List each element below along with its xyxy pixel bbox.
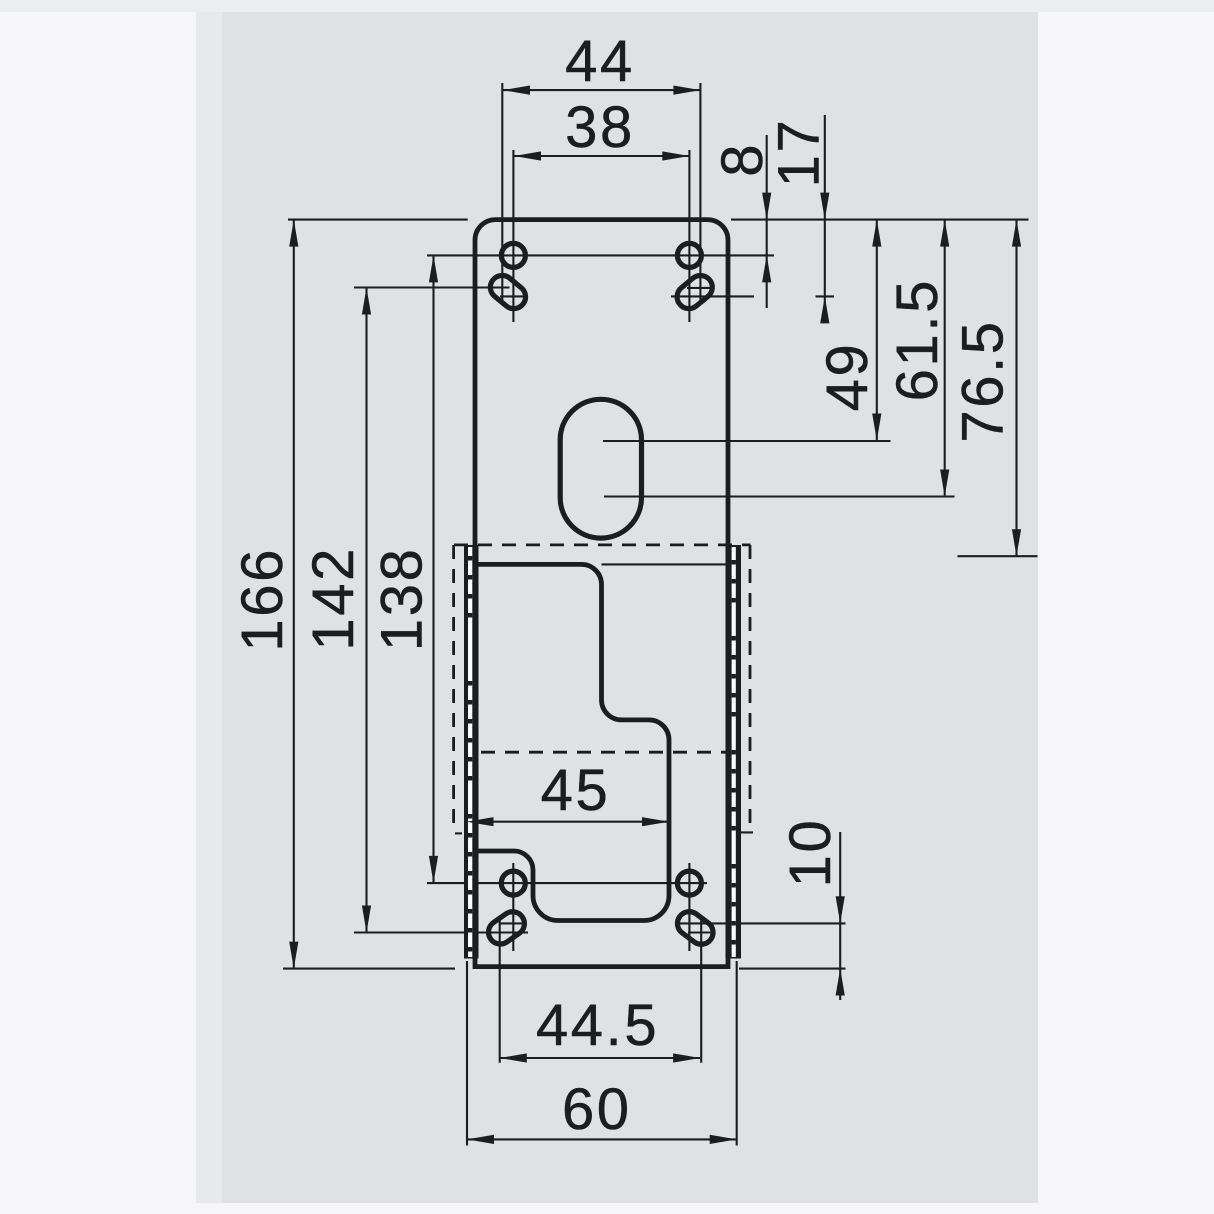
arrow 166 top (289, 220, 298, 247)
extension line 60 left (466, 961, 468, 1146)
tick: right dashed line end (734, 831, 753, 833)
extension line: plate bottom right (10) (739, 968, 846, 970)
svg-text:38: 38 (565, 95, 635, 160)
arrow 17 bottom (outside) (820, 296, 829, 323)
panel left soft highlight (196, 12, 222, 1203)
arrow 45 left (467, 817, 494, 826)
dimension line 166 (293, 220, 295, 969)
dimension line 60 (467, 1138, 737, 1140)
arrow 49 bottom (872, 414, 881, 441)
arrow 142 top (362, 288, 371, 315)
arrow 138 bottom (429, 856, 438, 883)
dimension line 10 (839, 832, 841, 1000)
arrow 166 bottom (289, 942, 298, 969)
arrow 38 right (662, 151, 689, 160)
extension line: top oblong upper crosses (142) (354, 286, 510, 288)
svg-text:142: 142 (301, 546, 366, 651)
extension line: bottom oblong lower crosses (142) (354, 931, 528, 933)
right hatched strip (726, 545, 742, 959)
svg-text:76.5: 76.5 (950, 319, 1015, 442)
arrow 76.5 bottom (1012, 529, 1021, 556)
top-left oblong hole (486, 271, 531, 314)
arrow 76.5 top (1012, 220, 1021, 247)
extension line 44 left (501, 83, 503, 301)
arrow 10 top (outside) (836, 896, 845, 923)
extension line: oval top center (49) (603, 440, 891, 442)
svg-text:61.5: 61.5 (885, 278, 950, 401)
tick: left dashed line end (455, 832, 462, 834)
extension line 44 right (699, 83, 701, 301)
extension line: top-right oblong lower cross (17) (671, 295, 754, 297)
arrow 61.5 bottom (940, 470, 949, 497)
bottom cross line right holes (688, 863, 690, 951)
gray drawing panel (196, 12, 1038, 1203)
arrow 10 bottom (outside) (836, 969, 845, 996)
dimension line 45 (467, 821, 670, 823)
dimension line 49 (876, 220, 878, 441)
extension line 44.5 right (700, 919, 702, 1063)
arrow 8 bottom (outside) (762, 255, 771, 282)
extension line: plate bottom left (166) (283, 968, 455, 970)
arrow 138 top (429, 255, 438, 282)
svg-text:44.5: 44.5 (536, 993, 659, 1058)
arrow 61.5 top (940, 220, 949, 247)
left hatched strip (464, 545, 479, 959)
tick: bottom-left oblong upper cross (500, 922, 527, 924)
tick at 17 dimension line (816, 295, 835, 297)
bottom-left oblong hole (484, 907, 529, 948)
dimension line 17 (824, 115, 826, 320)
arrow 60 left (467, 1135, 494, 1144)
dimension line 61.5 (944, 220, 946, 497)
arrow 44 right (673, 86, 700, 95)
dashed line: case middle (481, 751, 727, 754)
dashed line: case top (454, 544, 751, 547)
bottom-right round hole (677, 871, 701, 895)
dimension line 8 (766, 135, 768, 308)
top light strip (0, 0, 1214, 12)
arrow 17 top (outside) (820, 193, 829, 220)
arrow 49 top (872, 220, 881, 247)
arrow 44 left (503, 86, 530, 95)
bottom-left round hole (501, 871, 525, 895)
extension line: plate top right (8/17/49/61.5/76.5 datum) (731, 219, 1029, 221)
arrow 44.5 left (500, 1053, 527, 1062)
svg-text:17: 17 (766, 118, 831, 188)
tick: bottom-right oblong lower cross (688, 931, 714, 933)
top-right oblong hole (672, 271, 717, 314)
svg-text:60: 60 (562, 1077, 632, 1142)
extension line 44.5 left (499, 919, 501, 1063)
tick at 76.5 dimension line (958, 555, 1038, 557)
dashed line: case right side (749, 545, 752, 824)
arrow 8 top (outside) (762, 193, 771, 220)
faceplate outline (475, 220, 728, 967)
dimension line 138 (432, 255, 434, 883)
thin continuation of cutout top edge (602, 563, 732, 565)
lock case cutout outline (475, 564, 669, 920)
arrow 38 left (514, 151, 541, 160)
svg-text:44: 44 (565, 29, 635, 94)
svg-text:166: 166 (230, 547, 295, 652)
extension line: plate top left (166) (288, 219, 468, 221)
extension line: through bottom round holes (138) (427, 882, 707, 884)
arrow 45 right (642, 817, 669, 826)
svg-text:45: 45 (541, 758, 611, 823)
extension line: oval bottom center (61.5) (604, 495, 955, 497)
extension line 38 right (688, 150, 690, 322)
arrow 60 right (710, 1135, 737, 1144)
extension line 60 right (736, 961, 738, 1146)
svg-text:10: 10 (778, 818, 843, 888)
extension line 38 left (512, 150, 514, 322)
tick: top-left oblong lower cross (500, 295, 527, 297)
dimension line 76.5 (1015, 220, 1017, 557)
dashed line: case left side (452, 545, 455, 830)
top-left round hole (501, 243, 525, 267)
arrow 44.5 right (673, 1053, 700, 1062)
svg-text:138: 138 (369, 547, 434, 652)
dimension line 38 (514, 155, 689, 157)
dimension line 142 (365, 288, 367, 933)
arrow 142 bottom (362, 906, 371, 933)
extension line: bottom-right oblong upper cross (10) (676, 922, 846, 924)
top-right round hole (677, 243, 701, 267)
extension line: through top round holes (138/8) (427, 254, 774, 256)
bottom cross line left holes (512, 863, 514, 951)
dimension line 44 (503, 89, 700, 91)
tick: top-right oblong upper cross (687, 287, 714, 289)
svg-text:49: 49 (815, 342, 880, 412)
dimension line 44.5 (500, 1057, 700, 1059)
bottom-right oblong hole (673, 907, 718, 949)
oval spindle hole (560, 399, 641, 538)
